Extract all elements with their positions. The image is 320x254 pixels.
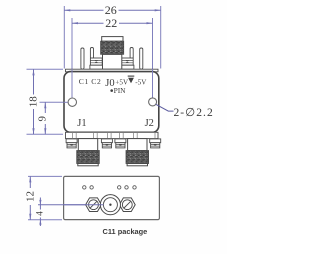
svg-text:9: 9 <box>37 116 49 122</box>
J0 connector knurled nut <box>101 41 124 54</box>
svg-text:2-∅2.2: 2-∅2.2 <box>174 107 214 119</box>
svg-text:22: 22 <box>105 16 117 30</box>
mounting hole left <box>68 98 76 106</box>
dimension 22 extension line left (through left hole) <box>71 18 73 98</box>
dimension 22 extension overlay left (inside body) <box>71 69 73 98</box>
dimension line 9 <box>44 102 46 134</box>
center SMA connector outer circle <box>100 195 120 215</box>
dimension 9 extension line (hole centerline) <box>40 101 68 103</box>
right screw hole with slot <box>122 200 132 210</box>
center SMA connector pin dot <box>109 204 111 206</box>
top tall pin 1 <box>81 48 84 69</box>
bottom feedthrough pin 4 <box>150 139 161 148</box>
top pin 2 (with glass bead) <box>90 48 93 59</box>
dimension 26 extension line left <box>63 6 65 69</box>
bottom view pin holes <box>83 186 137 189</box>
connector pedestal boss <box>90 65 134 69</box>
bottom flange ticks <box>73 132 156 138</box>
top bead left <box>90 58 102 65</box>
J1 connector knurled nut <box>77 151 100 164</box>
J0 connector neck <box>103 54 122 69</box>
left screw hole with slot <box>89 200 99 210</box>
top flange <box>66 69 159 72</box>
center SMA connector inner ring <box>103 198 117 212</box>
J1 connector end cap <box>78 164 98 166</box>
svg-text:4: 4 <box>35 211 45 216</box>
J2 connector neck <box>128 139 147 151</box>
top tall pin 4 <box>140 48 143 69</box>
dimension line 12 <box>29 176 31 219</box>
J2 connector knurled nut <box>126 151 149 164</box>
dimension extension line bottom <box>27 133 64 135</box>
svg-text:J1: J1 <box>77 118 86 129</box>
svg-text:C1 C2: C1 C2 <box>79 77 102 86</box>
top bead right <box>121 58 133 65</box>
dimension line 18 <box>33 69 35 134</box>
ground symbol <box>128 75 135 77</box>
dimension 26 extension line right <box>160 6 162 69</box>
SMA flange plate right hex nut <box>119 198 135 212</box>
dimension 12 extension bottom <box>28 219 62 221</box>
J0 connector cap <box>102 37 123 42</box>
J1 connector neck <box>78 139 97 151</box>
mounting hole right <box>149 98 157 106</box>
top pin 3 (with glass bead) <box>130 48 133 59</box>
dimension 22 extension overlay right (inside body) <box>152 69 154 98</box>
svg-text:-5V: -5V <box>135 79 147 87</box>
bottom feedthrough pin 2 <box>101 139 112 148</box>
svg-text:J2: J2 <box>145 118 154 129</box>
svg-text:18: 18 <box>27 96 39 108</box>
centerline (blue) <box>38 204 107 206</box>
dimension line 26 <box>64 9 160 11</box>
J2 connector end cap <box>127 164 147 166</box>
dimension 18 extension line top <box>27 68 64 70</box>
svg-text:12: 12 <box>25 191 37 202</box>
SMA flange plate left hex nut <box>86 198 102 212</box>
dimension 22 extension line right (through right hole) <box>152 18 154 98</box>
dimension line 4 <box>39 198 41 227</box>
bottom flange <box>66 132 159 138</box>
bullet and label PIN <box>110 89 113 92</box>
dimension 12 extension top <box>28 175 62 177</box>
svg-text:PIN: PIN <box>114 86 127 95</box>
svg-text:C11 package: C11 package <box>103 227 148 236</box>
relay body outline <box>64 72 159 133</box>
bottom feedthrough pin 1 <box>66 139 77 148</box>
dimension line 22 <box>72 22 153 24</box>
bottom view outline <box>64 176 160 219</box>
bottom feedthrough pin 3 <box>115 139 126 148</box>
leader line to hole note <box>156 104 174 111</box>
dimension 9 extension overlay (to hole edge) <box>64 101 68 103</box>
centerline overlay across flange plate <box>64 204 104 206</box>
